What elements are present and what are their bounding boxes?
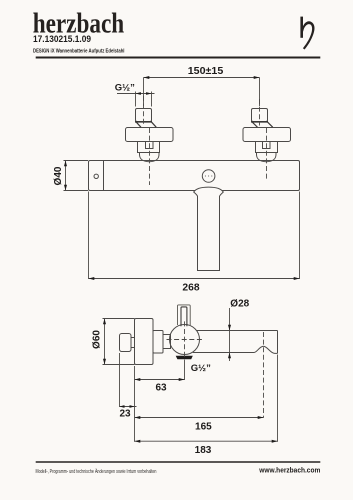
dimension 165 [135,417,264,419]
right S-union [243,109,291,162]
dimension Ø40 [64,161,89,191]
end cap line [103,161,105,191]
extension lines bottom [120,353,278,442]
nipple G1/2 right [252,109,268,122]
flange left [126,128,174,142]
neck 1 [131,338,135,348]
spout top [197,330,278,332]
nut left [138,142,160,153]
svg-text:165: 165 [195,421,212,432]
svg-text:G½”: G½” [115,83,135,94]
body bar [89,161,300,191]
svg-text:63: 63 [155,382,167,393]
dome right [257,153,277,162]
dome left [140,153,160,162]
svg-text:www.herzbach.com: www.herzbach.com [258,466,320,475]
spout end edge [277,331,279,354]
union nut side [153,331,163,354]
svg-text:17.130215.1.09: 17.130215.1.09 [33,34,91,44]
spout bottom with break wave [193,346,278,353]
lever side outer [178,305,191,325]
flange right [243,128,291,142]
svg-text:Ø40: Ø40 [53,166,64,185]
circle crosshair [167,321,203,357]
svg-text:Ø60: Ø60 [92,330,103,349]
centerline right top [259,99,261,126]
dimension 150±15 [144,78,260,107]
svg-text:183: 183 [195,445,212,456]
svg-text:268: 268 [182,282,199,293]
lever side inner blade [181,307,187,326]
thread hatch left [135,122,156,127]
outlet black [176,356,193,359]
nipple G1/2 left [136,109,152,122]
dimension G1/2 front [117,92,155,107]
footer rule [36,461,321,463]
temperature button dots [205,175,213,176]
svg-text:Ø28: Ø28 [230,298,249,309]
escutcheon side [135,319,154,365]
svg-text:Modell-, Programm- und technis: Modell-, Programm- und technische Änderu… [36,468,157,475]
dimension 268 [89,192,300,280]
svg-text:150±15: 150±15 [188,66,224,77]
centerline left bottom [149,128,151,185]
svg-text:DESIGN iX Wannenbatterie Aufpu: DESIGN iX Wannenbatterie Aufputz Edelsta… [33,49,125,55]
small screw hole [94,174,98,178]
svg-text:23: 23 [119,409,131,420]
left S-union [126,109,174,162]
dimension 183 [135,440,278,442]
centerline right bottom [266,128,268,180]
logo mark h [302,17,315,50]
break centerline dashed [263,332,265,418]
nut right [256,142,278,153]
dimension Ø28 [229,308,231,361]
temperature button [202,170,215,183]
neck 2 [163,335,171,349]
handle lever front [194,187,224,270]
thread hatch right [251,122,273,127]
nut facet left [146,142,154,149]
dimension 63 [135,379,185,381]
dimension 23 [120,406,137,408]
header rule [36,57,321,59]
nut facet right [263,142,271,149]
dimension Ø60 [103,319,135,365]
wall pipe stub [120,334,132,352]
valve body circle [170,325,200,355]
centerline left top [143,96,145,126]
svg-text:G½”: G½” [191,363,211,374]
